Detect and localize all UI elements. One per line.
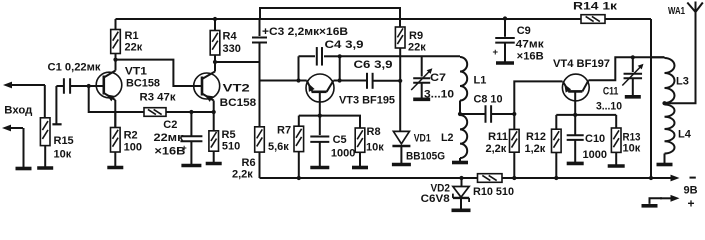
ground C2	[190, 141, 192, 165]
svg-text:VD1: VD1	[414, 133, 431, 145]
svg-text:R8: R8	[367, 126, 381, 138]
ground C9	[496, 61, 514, 65]
svg-text:C6 3,9: C6 3,9	[354, 59, 393, 71]
svg-text:R2: R2	[124, 130, 138, 142]
wire VT4 emitter line	[514, 81, 562, 114]
svg-text:47мк: 47мк	[516, 39, 545, 51]
svg-text:22к: 22к	[125, 41, 143, 53]
ground R13	[615, 152, 617, 166]
svg-text:L2: L2	[441, 132, 454, 144]
inductor L2	[460, 115, 467, 158]
svg-text:R12: R12	[526, 131, 546, 143]
svg-text:R9: R9	[409, 30, 423, 42]
wire C1 tap to R15	[55, 86, 57, 124]
varicap diode VD1	[399, 81, 401, 132]
ground C5	[319, 142, 321, 168]
resistor R1	[115, 19, 117, 30]
resistor R7	[298, 116, 300, 127]
svg-text:10к: 10к	[623, 142, 641, 154]
svg-text:Вход: Вход	[4, 104, 32, 116]
svg-text:1000: 1000	[331, 148, 355, 160]
resistor R3	[144, 108, 166, 117]
node varicap junction	[398, 79, 402, 83]
svg-text:R11: R11	[488, 131, 508, 143]
svg-text:×16В: ×16В	[517, 51, 544, 63]
transistor VT4	[562, 74, 589, 101]
node C8 right junction	[512, 112, 516, 116]
inductor L1	[459, 55, 461, 58]
wire bypass loop over top rail	[260, 8, 400, 19]
capacitor C2	[190, 112, 192, 136]
input terminal arrow lower	[8, 127, 23, 129]
wire VT1 base feedback	[89, 86, 144, 112]
resistor R6	[259, 81, 261, 127]
resistor R4	[214, 19, 216, 31]
ground L4	[664, 163, 666, 165]
svg-text:VT4 BF197: VT4 BF197	[553, 58, 610, 70]
svg-text:9В: 9В	[684, 185, 698, 197]
svg-text:+C3 2,2мк×16В: +C3 2,2мк×16В	[262, 26, 348, 38]
ground VD1	[400, 146, 402, 165]
ground L2	[459, 158, 461, 163]
wire VT3 base line	[299, 116, 360, 128]
svg-text:100: 100	[124, 141, 142, 153]
node C11 junction	[631, 55, 635, 59]
output arrow plus	[649, 204, 651, 206]
ground C11	[632, 78, 634, 97]
svg-text:+: +	[688, 197, 695, 211]
wire C4 node to tank	[340, 55, 460, 57]
svg-text:BB105G: BB105G	[406, 151, 445, 163]
svg-text:BC158: BC158	[220, 97, 257, 109]
wire VT3 emitter line	[260, 80, 307, 82]
node L1 L2 tap junction	[458, 112, 462, 116]
svg-text:R6: R6	[242, 157, 256, 169]
capacitor C8	[460, 113, 485, 115]
trimmer capacitor C11	[632, 57, 634, 72]
svg-text:R4: R4	[223, 31, 238, 43]
ground R2	[114, 152, 116, 168]
wire VT4 collector path	[589, 57, 665, 80]
resistor R5	[213, 112, 215, 131]
svg-text:3...10: 3...10	[596, 101, 622, 113]
capacitor C4	[299, 55, 316, 57]
zener diode VD2	[459, 176, 463, 180]
node C2 junction	[189, 110, 193, 114]
svg-text:C5: C5	[333, 134, 347, 146]
node R7 bottom	[297, 176, 301, 180]
antenna WA1	[687, 3, 695, 13]
ground R15	[44, 146, 46, 168]
capacitor C10	[574, 115, 576, 135]
inductor L3	[651, 56, 665, 58]
ground VD2	[460, 198, 462, 210]
svg-text:C8 10: C8 10	[474, 94, 503, 106]
node VT1 base junction	[87, 84, 91, 88]
label minus	[690, 177, 696, 179]
svg-text:R1: R1	[125, 30, 139, 42]
resistor R9	[399, 19, 401, 27]
svg-text:22к: 22к	[408, 41, 426, 53]
svg-text:R5: R5	[222, 129, 236, 141]
svg-text:C9: C9	[517, 25, 531, 37]
transistor VT3	[306, 74, 334, 102]
svg-text:22мк: 22мк	[154, 132, 185, 144]
wire VT4 base emitter bias line	[556, 114, 616, 116]
svg-text:510: 510	[222, 140, 240, 152]
resistor R8	[355, 128, 365, 152]
trimmer capacitor C7	[421, 56, 423, 76]
node VT2 collector junction	[213, 60, 217, 64]
resistor R2	[114, 112, 116, 128]
svg-text:BC158: BC158	[126, 78, 160, 90]
svg-text:C10: C10	[585, 133, 605, 145]
wire bottom supply rail	[260, 177, 670, 179]
node C4 right junction	[338, 54, 342, 58]
wire top supply rail	[116, 18, 652, 20]
svg-text:WA1: WA1	[668, 5, 685, 17]
svg-text:10к: 10к	[54, 149, 72, 161]
svg-text:R10 510: R10 510	[473, 186, 514, 198]
svg-text:R14 1к: R14 1к	[573, 1, 618, 13]
resistor R13	[615, 115, 617, 128]
node VT3 base junction	[318, 114, 322, 118]
ground C10	[574, 140, 576, 164]
svg-text:R15: R15	[54, 135, 74, 147]
wire VT1 collector to VT2 base	[116, 60, 195, 86]
svg-text:+: +	[182, 143, 187, 153]
resistor R11	[513, 114, 515, 129]
svg-text:VT3 BF195: VT3 BF195	[339, 95, 395, 107]
svg-text:C1 0,22мк: C1 0,22мк	[48, 62, 102, 74]
svg-text:+: +	[493, 47, 499, 58]
node VT1 collector junction	[113, 58, 117, 62]
svg-text:R3 47к: R3 47к	[140, 91, 177, 103]
svg-text:C11: C11	[603, 85, 619, 97]
svg-text:5,6к: 5,6к	[268, 141, 289, 153]
svg-text:1,2к: 1,2к	[525, 143, 546, 155]
capacitor C9	[503, 16, 507, 20]
wire C3 node down to VT3 emitter line	[259, 62, 261, 81]
capacitor C3	[259, 19, 261, 36]
wire antenna feed	[665, 12, 696, 103]
svg-text:C6V8: C6V8	[421, 193, 450, 205]
resistor R12	[555, 115, 557, 129]
resistor R10	[478, 174, 503, 183]
svg-text:2,2к: 2,2к	[486, 143, 507, 155]
svg-text:C4 3,9: C4 3,9	[325, 39, 364, 51]
ground input	[23, 128, 25, 169]
svg-text:L1: L1	[474, 75, 487, 87]
capacitor C5	[319, 116, 321, 135]
node VT3 collector junction	[338, 78, 342, 82]
svg-text:R7: R7	[277, 125, 291, 137]
output arrow minus	[662, 177, 673, 179]
capacitor C6	[340, 80, 367, 82]
wire VT2 collector to C3 branch	[215, 61, 260, 63]
ground C7	[421, 83, 423, 99]
svg-text:C2: C2	[163, 119, 177, 131]
svg-text:2,2к: 2,2к	[232, 169, 253, 181]
svg-text:VT1: VT1	[125, 66, 147, 78]
ground R8	[359, 152, 361, 167]
resistor R14	[581, 15, 605, 24]
svg-text:1000: 1000	[583, 149, 607, 161]
inductor L4	[665, 105, 675, 154]
transistor VT1	[96, 72, 122, 98]
svg-text:L3: L3	[676, 76, 689, 88]
ground R5	[213, 151, 215, 163]
svg-text:10к: 10к	[366, 142, 384, 154]
node L3 L4 junction	[662, 101, 666, 105]
svg-text:VT2: VT2	[223, 82, 250, 94]
node VT2 emitter junction	[212, 110, 216, 114]
svg-text:C7: C7	[430, 72, 446, 84]
svg-text:330: 330	[223, 43, 241, 55]
capacitor C1	[63, 78, 65, 94]
wire supply down right side	[650, 19, 652, 178]
svg-text:L4: L4	[678, 129, 692, 141]
input terminal arrow upper	[9, 84, 45, 86]
transistor VT2	[194, 73, 220, 99]
resistor R15	[40, 118, 50, 146]
